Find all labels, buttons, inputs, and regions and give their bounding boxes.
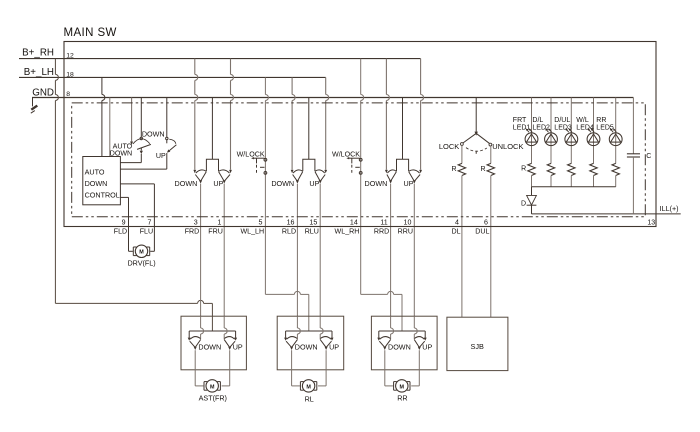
svg-text:WL_LH: WL_LH: [240, 228, 264, 236]
svg-text:DOWN: DOWN: [388, 343, 411, 352]
svg-text:LED5: LED5: [596, 124, 614, 131]
svg-text:5: 5: [259, 218, 263, 226]
svg-text:14: 14: [350, 218, 358, 226]
svg-text:UP: UP: [309, 179, 319, 188]
svg-text:13: 13: [647, 220, 655, 227]
svg-text:LOCK: LOCK: [439, 142, 459, 151]
svg-text:UP: UP: [213, 179, 223, 188]
svg-text:MAIN SW: MAIN SW: [64, 27, 117, 39]
svg-text:DRV(FL): DRV(FL): [127, 259, 155, 268]
svg-text:8: 8: [66, 91, 70, 98]
svg-text:FRT: FRT: [513, 117, 527, 124]
svg-text:R: R: [451, 166, 456, 173]
svg-text:FRU: FRU: [208, 228, 223, 236]
svg-text:LED1: LED1: [513, 124, 531, 131]
svg-text:DOWN: DOWN: [271, 179, 294, 188]
svg-text:UP: UP: [404, 179, 414, 188]
svg-text:UP: UP: [422, 343, 432, 352]
svg-text:FLD: FLD: [114, 228, 127, 236]
svg-text:4: 4: [455, 218, 459, 226]
svg-text:9: 9: [122, 218, 126, 226]
svg-text:1: 1: [217, 218, 221, 226]
svg-text:D: D: [521, 201, 526, 208]
svg-text:D/L: D/L: [532, 117, 543, 124]
svg-text:15: 15: [309, 218, 317, 226]
svg-text:6: 6: [484, 218, 488, 226]
svg-text:LED4: LED4: [576, 124, 594, 131]
svg-text:DOWN: DOWN: [295, 343, 318, 352]
svg-text:C: C: [646, 153, 651, 160]
svg-text:D/UL: D/UL: [554, 117, 570, 124]
svg-text:AST(FR): AST(FR): [199, 394, 227, 403]
svg-text:LED3: LED3: [554, 124, 572, 131]
svg-text:R: R: [521, 165, 526, 172]
svg-text:16: 16: [287, 218, 295, 226]
svg-text:DOWN: DOWN: [175, 179, 198, 188]
svg-text:DOWN: DOWN: [198, 343, 221, 352]
svg-text:UP: UP: [233, 343, 243, 352]
svg-text:M: M: [306, 384, 311, 390]
svg-text:FRD: FRD: [185, 228, 200, 236]
svg-text:SJB: SJB: [471, 342, 485, 351]
svg-text:DOWN: DOWN: [142, 129, 165, 138]
svg-text:LED2: LED2: [532, 124, 550, 131]
svg-text:M: M: [210, 384, 215, 390]
svg-text:DUL: DUL: [475, 228, 489, 236]
svg-text:DL: DL: [452, 228, 461, 236]
svg-text:W/LOCK: W/LOCK: [332, 151, 360, 159]
svg-text:RR: RR: [596, 117, 606, 124]
svg-text:3: 3: [194, 218, 198, 226]
svg-text:WL_RH: WL_RH: [335, 228, 360, 236]
svg-text:11: 11: [380, 218, 387, 226]
svg-text:RRD: RRD: [374, 228, 389, 236]
svg-text:UP: UP: [156, 152, 166, 160]
svg-text:7: 7: [148, 218, 152, 226]
svg-text:18: 18: [66, 72, 74, 79]
svg-text:M: M: [139, 250, 144, 256]
svg-text:W/L: W/L: [576, 117, 589, 124]
svg-text:RR: RR: [397, 394, 407, 403]
svg-text:RL: RL: [305, 394, 314, 403]
svg-text:10: 10: [404, 218, 412, 226]
svg-text:FLU: FLU: [140, 228, 153, 236]
svg-text:W/LOCK: W/LOCK: [237, 151, 265, 159]
svg-text:B+_RH: B+_RH: [22, 48, 54, 59]
svg-text:RLD: RLD: [282, 228, 296, 236]
svg-text:B+_LH: B+_LH: [24, 67, 54, 78]
svg-text:12: 12: [66, 52, 74, 59]
svg-text:UNLOCK: UNLOCK: [492, 142, 523, 151]
svg-text:AUTO: AUTO: [85, 168, 105, 177]
svg-text:R: R: [481, 166, 486, 173]
svg-text:GND: GND: [32, 87, 54, 98]
svg-text:ILL(+): ILL(+): [660, 204, 679, 213]
svg-text:RLU: RLU: [305, 228, 319, 236]
svg-text:DOWN: DOWN: [365, 179, 388, 188]
svg-text:CONTROL: CONTROL: [85, 190, 120, 199]
svg-text:DOWN: DOWN: [85, 179, 108, 188]
svg-text:RRU: RRU: [398, 228, 413, 236]
svg-text:M: M: [400, 384, 405, 390]
svg-text:UP: UP: [329, 343, 339, 352]
